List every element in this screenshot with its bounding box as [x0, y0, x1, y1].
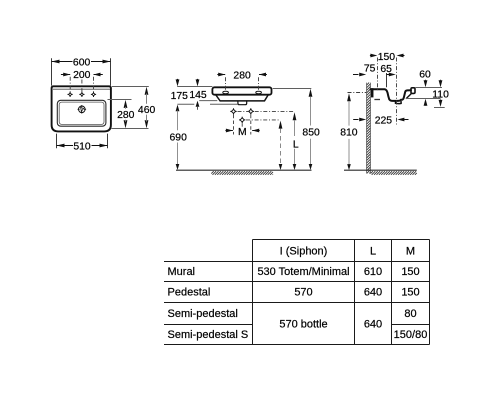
svg-text:150: 150 [401, 287, 419, 299]
svg-text:Pedestal: Pedestal [168, 287, 211, 299]
svg-text:L: L [293, 139, 299, 150]
svg-text:I (Siphon): I (Siphon) [280, 245, 328, 257]
svg-text:75: 75 [364, 63, 376, 74]
svg-text:60: 60 [419, 69, 431, 80]
svg-text:850: 850 [302, 128, 320, 139]
svg-text:150/80: 150/80 [394, 329, 428, 341]
svg-text:570: 570 [294, 287, 312, 299]
svg-text:640: 640 [364, 319, 382, 331]
svg-text:690: 690 [170, 132, 188, 143]
svg-text:L: L [370, 245, 376, 257]
svg-text:225: 225 [375, 116, 393, 127]
svg-text:510: 510 [73, 142, 91, 153]
svg-text:Semi-pedestal: Semi-pedestal [168, 308, 238, 320]
svg-text:810: 810 [340, 128, 358, 139]
svg-text:570 bottle: 570 bottle [279, 319, 327, 331]
svg-text:460: 460 [138, 105, 156, 116]
svg-text:150: 150 [378, 52, 396, 63]
svg-text:110: 110 [432, 89, 449, 100]
svg-text:280: 280 [117, 110, 135, 121]
svg-text:150: 150 [401, 266, 419, 278]
svg-text:640: 640 [364, 287, 382, 299]
svg-text:530 Totem/Minimal: 530 Totem/Minimal [257, 266, 349, 278]
svg-text:Mural: Mural [168, 266, 196, 278]
svg-text:M: M [238, 127, 247, 138]
svg-text:80: 80 [404, 308, 416, 320]
svg-text:610: 610 [364, 266, 382, 278]
svg-text:Semi-pedestal S: Semi-pedestal S [168, 329, 249, 341]
svg-text:175: 175 [171, 91, 189, 102]
svg-text:280: 280 [233, 71, 251, 82]
svg-text:145: 145 [189, 90, 207, 101]
svg-text:600: 600 [73, 58, 91, 69]
svg-text:M: M [406, 245, 415, 257]
